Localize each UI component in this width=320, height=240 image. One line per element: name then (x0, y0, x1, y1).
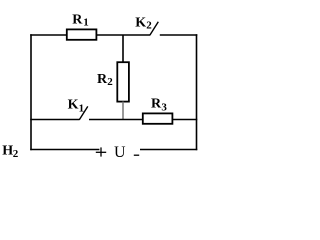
switch K2 blade (150, 22, 159, 35)
wire R2 bottom lead (122, 102, 124, 120)
switch K1 blade (79, 106, 88, 119)
svg-text:K: K (68, 98, 79, 113)
svg-text:2: 2 (13, 148, 19, 160)
svg-text:U: U (114, 144, 126, 161)
battery plus sign horizontal stroke (96, 151, 106, 153)
resistor R1 (67, 29, 97, 39)
svg-text:R: R (72, 13, 83, 28)
wire right side vertical (196, 34, 198, 150)
svg-text:H: H (2, 143, 13, 158)
wire top from left corner to R1 (30, 34, 67, 36)
battery minus sign (134, 154, 139, 156)
svg-text:1: 1 (83, 17, 89, 29)
wire top from K2 to right corner (160, 34, 198, 36)
wire left side vertical (30, 34, 32, 150)
wire R2 top lead (122, 35, 124, 63)
svg-text:K: K (135, 15, 146, 30)
wire top from R1 to switch K2 (97, 34, 151, 36)
svg-text:1: 1 (79, 102, 85, 114)
wire middle from left side to switch K1 (30, 119, 79, 121)
svg-text:3: 3 (161, 102, 167, 114)
svg-text:2: 2 (107, 76, 113, 88)
svg-text:2: 2 (146, 19, 152, 31)
resistor R3 (143, 113, 173, 123)
wire middle from R3 to right side (173, 119, 198, 121)
battery plus sign vertical stroke (100, 147, 102, 156)
svg-text:R: R (151, 97, 162, 112)
wire bottom left segment (30, 149, 99, 151)
wire middle from K1 to R3 (89, 119, 143, 121)
wire bottom right segment (140, 149, 197, 151)
resistor R2 (117, 62, 129, 101)
